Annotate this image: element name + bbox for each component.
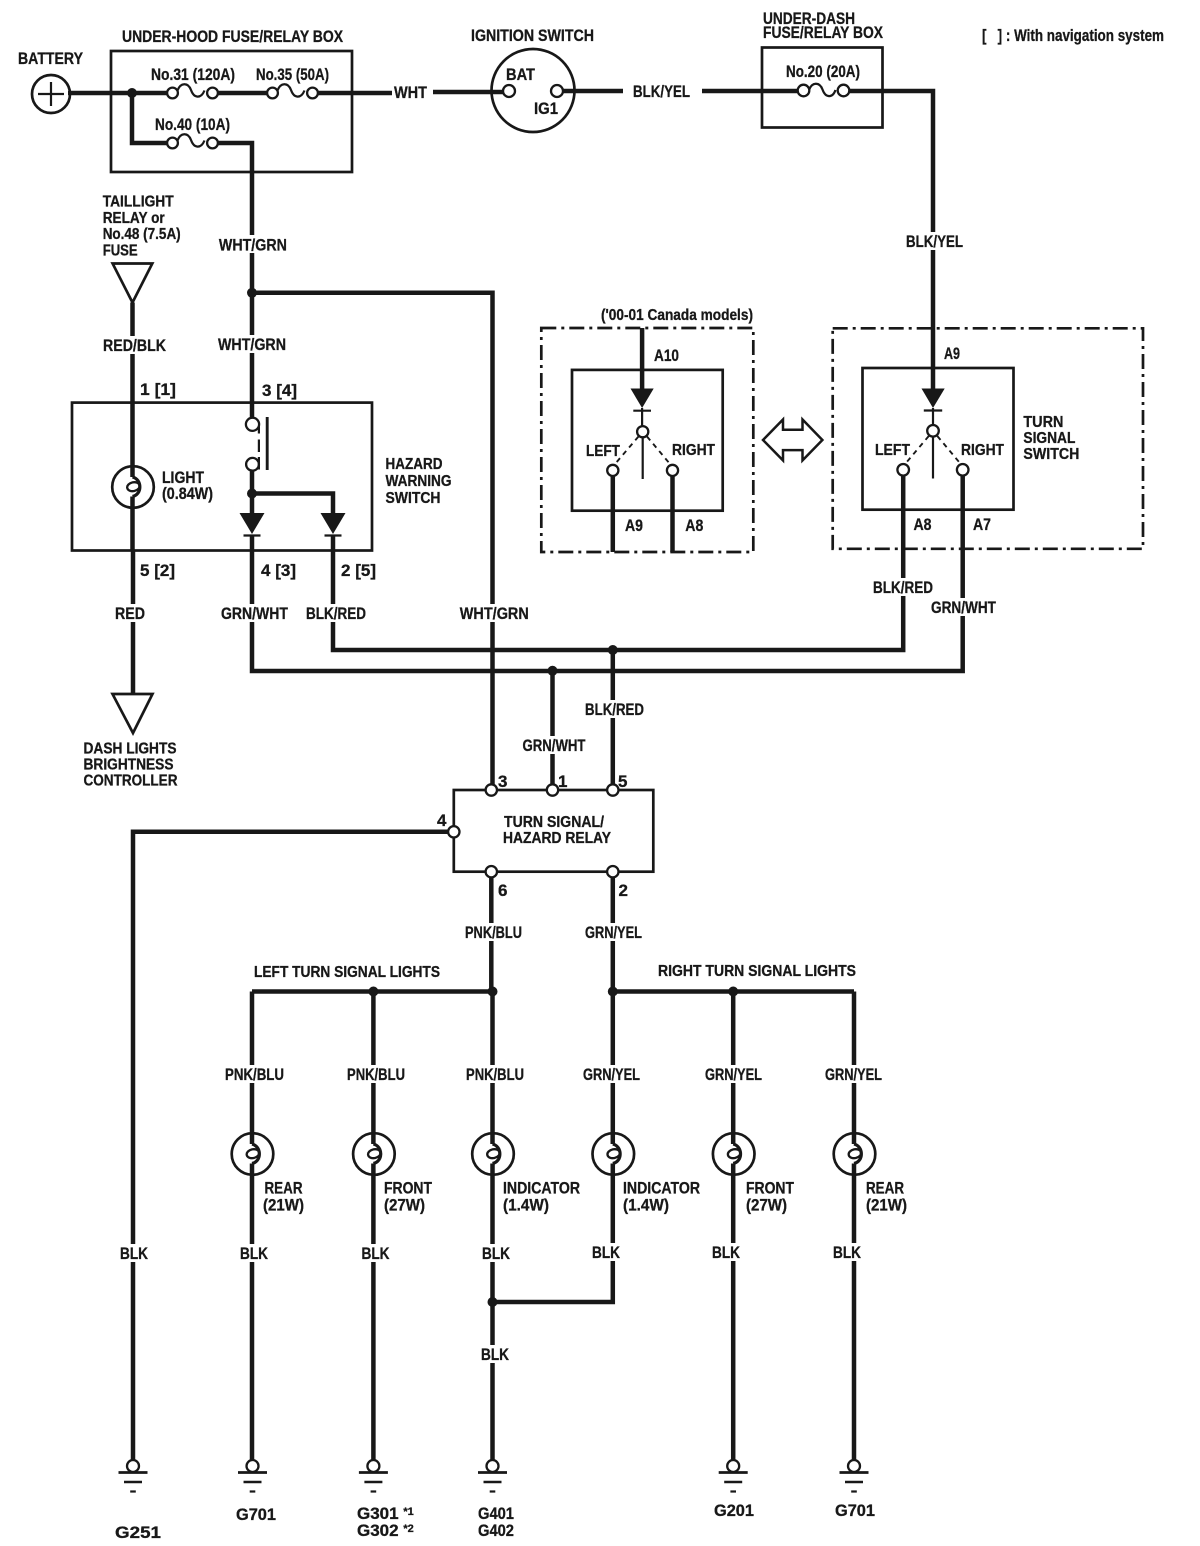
svg-text:GRN/WHT: GRN/WHT	[931, 598, 996, 617]
junction battery feed	[127, 88, 137, 98]
svg-text:A8: A8	[914, 515, 932, 534]
canada models label	[601, 307, 753, 324]
svg-text:IG1: IG1	[534, 99, 558, 118]
svg-text:(1.4W): (1.4W)	[503, 1196, 549, 1215]
right rear branch	[822, 992, 907, 1461]
wire relay pin 2 GRN/YEL	[582, 877, 644, 991]
svg-text:1 [1]: 1 [1]	[140, 380, 176, 399]
svg-text:G251: G251	[115, 1523, 161, 1542]
right indicator branch	[493, 992, 701, 1303]
wire battery to ignition switch (WHT)	[68, 83, 504, 102]
svg-text:DASH LIGHTS: DASH LIGHTS	[84, 741, 177, 758]
double arrow	[763, 420, 822, 461]
svg-text:HAZARD: HAZARD	[386, 456, 443, 473]
svg-text:BLK/YEL: BLK/YEL	[633, 82, 690, 101]
turn signal switch canada box (dash-dot)	[541, 328, 753, 552]
svg-text:UNDER-HOOD FUSE/RELAY BOX: UNDER-HOOD FUSE/RELAY BOX	[122, 27, 344, 46]
junction below switch	[247, 489, 333, 514]
A8 / A7 labels	[914, 515, 992, 534]
svg-text:No.48 (7.5A): No.48 (7.5A)	[103, 226, 181, 243]
svg-text:FUSE/RELAY BOX: FUSE/RELAY BOX	[763, 23, 884, 42]
turn signal / hazard relay	[454, 790, 654, 872]
svg-text:PNK/BLU: PNK/BLU	[225, 1065, 284, 1084]
svg-text:A8: A8	[685, 516, 703, 535]
terminals turn signal	[897, 464, 968, 476]
ground G401/G402	[478, 1460, 514, 1540]
relay pins	[437, 772, 628, 900]
svg-text:No.35 (50A): No.35 (50A)	[256, 65, 329, 84]
svg-text:1: 1	[558, 772, 567, 791]
svg-text:SWITCH: SWITCH	[386, 490, 441, 507]
svg-text:3 [4]: 3 [4]	[262, 381, 297, 400]
svg-text:(27W): (27W)	[746, 1196, 787, 1215]
svg-text:BLK: BLK	[240, 1244, 269, 1263]
svg-text:(21W): (21W)	[263, 1196, 304, 1215]
svg-text:2: 2	[619, 881, 628, 900]
junction WHT/GRN	[247, 288, 257, 298]
diode arrow turn signal	[922, 389, 945, 426]
diode left (hazard)	[240, 513, 265, 551]
svg-text:No.20 (20A): No.20 (20A)	[786, 62, 860, 81]
svg-text:HAZARD RELAY: HAZARD RELAY	[503, 830, 612, 847]
wire BLK/YEL to turn signal switch	[882, 91, 963, 389]
wire relay pin 4 to ground G251	[117, 832, 448, 1460]
svg-text:TURN SIGNAL/: TURN SIGNAL/	[504, 814, 605, 831]
svg-text:CONTROLLER: CONTROLLER	[84, 773, 178, 790]
svg-text:PNK/BLU: PNK/BLU	[466, 1065, 524, 1084]
diode right (hazard)	[321, 513, 346, 551]
svg-text:A7: A7	[973, 515, 991, 534]
turn signal switch title	[1023, 414, 1079, 463]
right turn signal lights bus	[608, 963, 856, 997]
svg-text:GRN/YEL: GRN/YEL	[705, 1065, 762, 1084]
svg-text:GRN/YEL: GRN/YEL	[825, 1065, 882, 1084]
svg-text:No.31 (120A): No.31 (120A)	[151, 65, 235, 84]
hazard pin labels	[140, 561, 376, 580]
svg-text:4: 4	[437, 811, 447, 830]
svg-text:RIGHT: RIGHT	[961, 442, 1004, 459]
left rear branch	[222, 992, 304, 1461]
battery	[18, 49, 84, 113]
svg-text:A9: A9	[625, 516, 643, 535]
svg-text:WARNING: WARNING	[386, 473, 452, 490]
fuse No.35 (50A)	[256, 65, 329, 98]
light bulb in hazard switch	[112, 403, 213, 551]
svg-text:(27W): (27W)	[384, 1196, 425, 1215]
svg-text:GRN/WHT: GRN/WHT	[221, 604, 288, 623]
left indicator branch	[463, 992, 580, 1461]
svg-text:WHT/GRN: WHT/GRN	[460, 604, 529, 623]
svg-text:SIGNAL: SIGNAL	[1023, 430, 1075, 447]
LEFT / RIGHT labels canada	[586, 442, 715, 460]
ground G201	[714, 1460, 754, 1520]
wire relay pin 6 PNK/BLU	[462, 877, 524, 991]
svg-text:BLK: BLK	[482, 1244, 511, 1263]
left turn signal lights bus	[252, 964, 498, 997]
under-hood fuse/relay box	[111, 27, 352, 172]
svg-text:BLK/RED: BLK/RED	[306, 604, 366, 623]
svg-text:GRN/WHT: GRN/WHT	[523, 736, 586, 755]
svg-text:4 [3]: 4 [3]	[261, 561, 296, 580]
ground G701 left	[236, 1460, 276, 1524]
svg-text:BAT: BAT	[506, 65, 536, 84]
terminals canada	[607, 465, 678, 476]
wire RED/BLK	[100, 303, 176, 403]
pivot turn signal	[906, 425, 961, 479]
wire BLK/RED bus	[303, 476, 933, 650]
svg-text:BATTERY: BATTERY	[18, 49, 84, 68]
svg-text:RED/BLK: RED/BLK	[103, 336, 167, 355]
svg-text:SWITCH: SWITCH	[1023, 446, 1079, 463]
ignition switch	[471, 26, 594, 132]
svg-text:IGNITION SWITCH: IGNITION SWITCH	[471, 26, 594, 45]
svg-text:TAILLIGHT: TAILLIGHT	[103, 194, 174, 211]
right front branch	[702, 992, 795, 1461]
svg-text:BLK: BLK	[120, 1244, 149, 1263]
junction BLK/RED to relay pin 5	[582, 645, 644, 784]
svg-text:WHT/GRN: WHT/GRN	[219, 236, 287, 255]
svg-text:WHT: WHT	[394, 83, 428, 102]
svg-text:BRIGHTNESS: BRIGHTNESS	[84, 757, 174, 774]
svg-text:A9: A9	[944, 344, 960, 363]
svg-text:BLK/YEL: BLK/YEL	[906, 232, 963, 251]
wire ignition to under-dash box (BLK/YEL)	[563, 82, 762, 101]
svg-text:RELAY or: RELAY or	[103, 210, 165, 227]
wire A10	[642, 328, 679, 390]
svg-text:6: 6	[498, 881, 507, 900]
svg-text:TURN: TURN	[1023, 414, 1063, 431]
svg-text:A10: A10	[654, 346, 679, 365]
svg-text:(21W): (21W)	[866, 1196, 907, 1215]
svg-text:GRN/YEL: GRN/YEL	[585, 923, 642, 942]
svg-text:RIGHT TURN SIGNAL LIGHTS: RIGHT TURN SIGNAL LIGHTS	[658, 963, 856, 980]
svg-text:No.40 (10A): No.40 (10A)	[155, 115, 230, 134]
svg-text:BLK: BLK	[712, 1243, 741, 1262]
svg-text:LEFT: LEFT	[586, 443, 620, 460]
turn signal switch box (dash-dot)	[833, 328, 1143, 549]
LEFT / RIGHT labels turn signal	[875, 442, 1004, 459]
svg-text:G402: G402	[478, 1521, 514, 1540]
svg-text:5 [2]: 5 [2]	[140, 561, 175, 580]
junction GRN/WHT to relay pin 1	[519, 666, 589, 785]
svg-text:G701: G701	[835, 1501, 875, 1520]
svg-text:WHT/GRN: WHT/GRN	[218, 335, 286, 354]
pivot canada	[615, 426, 670, 479]
svg-text:BLK/RED: BLK/RED	[873, 578, 933, 597]
svg-text:GRN/YEL: GRN/YEL	[583, 1065, 640, 1084]
svg-text:BLK: BLK	[592, 1243, 621, 1262]
svg-text:PNK/BLU: PNK/BLU	[347, 1065, 405, 1084]
fuse No.31 (120A)	[151, 65, 235, 98]
svg-text:3: 3	[498, 772, 507, 791]
fuse No.40 (10A)	[132, 93, 252, 172]
ground G251	[115, 1460, 161, 1542]
taillight relay note	[103, 194, 181, 303]
svg-text:[ ] : With navigation system: [ ] : With navigation system	[982, 26, 1164, 45]
svg-text:BLK: BLK	[481, 1345, 510, 1364]
svg-text:('00-01 Canada models): ('00-01 Canada models)	[601, 307, 753, 324]
svg-text:5: 5	[618, 772, 627, 791]
svg-text:BLK/RED: BLK/RED	[585, 700, 644, 719]
diode arrow canada	[631, 389, 654, 427]
svg-text:LEFT TURN SIGNAL LIGHTS: LEFT TURN SIGNAL LIGHTS	[254, 964, 440, 981]
svg-text:FUSE: FUSE	[103, 242, 138, 259]
wire WHT/GRN vertical	[215, 172, 297, 402]
svg-text:PNK/BLU: PNK/BLU	[465, 923, 522, 942]
wire WHT/GRN branch to relay pin 3	[252, 293, 529, 785]
under-dash fuse/relay box	[762, 9, 884, 128]
svg-text:RIGHT: RIGHT	[672, 442, 715, 459]
ground G301/G302	[357, 1460, 414, 1540]
svg-text:G701: G701	[236, 1505, 276, 1524]
switch contacts in hazard switch	[246, 403, 267, 494]
hazard warning switch box	[72, 403, 452, 551]
svg-text:RED: RED	[115, 604, 145, 623]
wire RED to dash lights controller	[84, 551, 178, 790]
fuse No.20 (20A)	[762, 84, 882, 97]
wires A9/A8 canada	[613, 476, 704, 552]
left front branch	[344, 992, 433, 1461]
svg-text:G201: G201	[714, 1501, 754, 1520]
svg-text:BLK: BLK	[362, 1244, 391, 1263]
svg-text:(0.84W): (0.84W)	[162, 484, 213, 503]
svg-text:LEFT: LEFT	[875, 442, 910, 459]
wire GRN/WHT bus	[218, 476, 998, 671]
svg-text:BLK: BLK	[833, 1243, 862, 1262]
note: with navigation system	[982, 26, 1164, 45]
svg-text:(1.4W): (1.4W)	[623, 1196, 669, 1215]
svg-text:2 [5]: 2 [5]	[341, 561, 376, 580]
ground G701 right	[835, 1460, 875, 1520]
junction indicators common ground	[478, 1297, 512, 1364]
